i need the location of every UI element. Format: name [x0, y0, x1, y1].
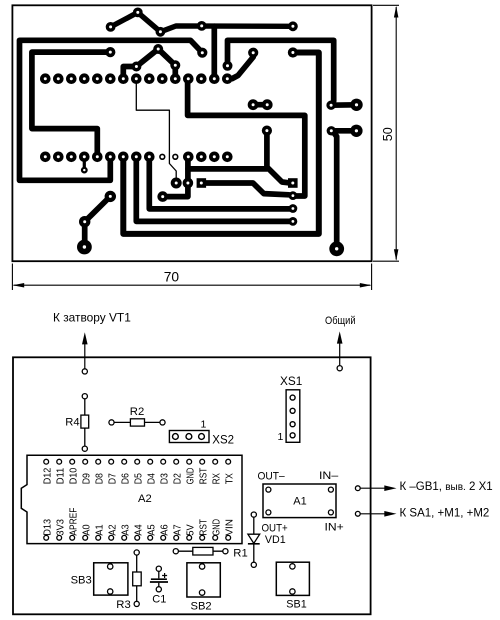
pad out small 2 [327, 126, 336, 135]
pin APREF of A2 [70, 535, 75, 540]
pin D3 of A2 [161, 459, 166, 464]
svg-text:1: 1 [201, 418, 207, 430]
pin A4 of A2 [135, 535, 140, 540]
pad junction [183, 178, 194, 189]
button SB3 [94, 563, 128, 595]
pad zigzag node [106, 22, 116, 32]
svg-text:RST: RST [198, 519, 209, 536]
pad mounting left [77, 240, 92, 255]
svg-text:OUT–: OUT– [258, 471, 286, 483]
svg-text:RST: RST [198, 468, 209, 485]
svg-text:A3: A3 [120, 524, 131, 535]
wire thin signal trace [136, 79, 176, 183]
svg-text:50: 50 [381, 127, 395, 141]
pin D8 of A2 [96, 459, 101, 464]
button SB2 [187, 563, 220, 597]
svg-text:R1: R1 [233, 547, 247, 559]
wire square-pad trace [201, 183, 289, 195]
svg-text:A2: A2 [138, 493, 152, 505]
pad bottom row pin 2 [53, 152, 64, 163]
pad jumper left [248, 99, 259, 110]
pin GND of A2 [213, 535, 218, 540]
svg-text:R4: R4 [65, 417, 79, 429]
polarity plus of C1 [162, 573, 167, 578]
svg-text:К затвору VT1: К затвору VT1 [53, 311, 131, 325]
pin RST of A2 [200, 459, 205, 464]
svg-text:К –GB1, выв. 2 X1: К –GB1, выв. 2 X1 [400, 481, 493, 493]
pad end of inner-C [105, 47, 115, 57]
wire outer-C trace [20, 40, 203, 180]
diode VD1 [248, 512, 260, 567]
pin D10 of A2 [70, 459, 75, 464]
wire pin12-XS1 trace [188, 79, 305, 196]
svg-text:SB1: SB1 [286, 598, 306, 610]
pad thin trace end [171, 178, 182, 189]
pad out small 1 [326, 101, 335, 110]
svg-text:GND: GND [185, 468, 196, 485]
pin D6 of A2 [122, 459, 127, 464]
pin D9 of A2 [83, 459, 88, 464]
svg-text:К SA1, +M1, +M2: К SA1, +M1, +M2 [400, 508, 490, 520]
wire stub [83, 157, 86, 170]
pin A6 of A2 [161, 535, 166, 540]
pad zigzag node [197, 21, 207, 31]
pad inverted-V node [153, 44, 163, 54]
resistor R2 [109, 419, 165, 426]
wire right-top trace [228, 40, 357, 105]
placement board outline [13, 357, 371, 614]
pad bottom row pin 12 [183, 152, 194, 163]
connector XS2 [169, 431, 209, 443]
wire diagonal to square pad [267, 131, 290, 183]
pad XS1 pin1 square [288, 178, 298, 188]
pad end of outer-C [197, 48, 207, 58]
svg-text:A5: A5 [146, 524, 157, 535]
svg-text:D6: D6 [120, 473, 131, 484]
svg-text:D4: D4 [146, 473, 157, 484]
dimension line 50 (right) [373, 5, 399, 261]
pad top row pin 13 [196, 73, 207, 84]
via bottom row pos 10 [160, 154, 165, 159]
pad top row pin 2 [53, 73, 64, 84]
wire to mount pad right [333, 132, 337, 249]
svg-text:IN+: IN+ [325, 522, 344, 534]
pad bottom row pin 9 [144, 152, 155, 163]
pad top row pin 10 [157, 73, 168, 84]
pad top row pin 15 [222, 73, 233, 84]
pad bottom row pin 1 [40, 152, 51, 163]
pad XS1 pin2 [289, 191, 298, 200]
pad mid right [262, 126, 272, 136]
pad bottom row pin 15 [222, 152, 233, 163]
pad bottom row pin 6 [105, 152, 116, 163]
pin 3V3 of A2 [57, 535, 62, 540]
pin A7 of A2 [174, 535, 179, 540]
wire inner-C trace [32, 52, 110, 157]
pad top row pin 7 [118, 73, 129, 84]
svg-text:APREF: APREF [68, 508, 79, 536]
svg-text:D13: D13 [42, 519, 53, 536]
pin A3 of A2 [122, 535, 127, 540]
pad top row pin 6 [105, 73, 116, 84]
pin A1 of A2 [96, 535, 101, 540]
svg-text:XS1: XS1 [280, 374, 302, 388]
pad top row pin 12 [183, 73, 194, 84]
resistor R4 [81, 394, 89, 452]
pad bottom row pin 3 [66, 152, 77, 163]
pin RST of A2 [200, 535, 205, 540]
pad top row pin 14 [209, 73, 220, 84]
pin RX of A2 [213, 459, 218, 464]
wire inverted-V trace [123, 49, 175, 79]
pad inverted-V node [170, 60, 180, 70]
resistor R1 [173, 547, 228, 555]
wire long loop trace [123, 53, 318, 234]
PCB board outline [12, 5, 371, 261]
pad out big 1 [350, 99, 362, 111]
pad diag top [248, 48, 258, 58]
module A1 [263, 484, 336, 518]
pad diag start [105, 191, 116, 202]
node to SA1 [355, 511, 360, 516]
svg-text:A6: A6 [159, 524, 170, 535]
pin D4 of A2 [148, 459, 153, 464]
dimension line 70 (bottom) [12, 264, 371, 291]
wire vertical to pin14 [211, 26, 217, 78]
wire diagonal to pin15 [227, 53, 253, 79]
pin A2 of A2 [109, 535, 114, 540]
pad bottom row pin 4 [79, 152, 90, 163]
svg-text:RX: RX [211, 473, 222, 484]
pin D13 of A2 [44, 535, 49, 540]
wire top zigzag [111, 12, 293, 31]
pad right-top trace end [223, 61, 233, 71]
pin TX of A2 [226, 459, 231, 464]
svg-text:D7: D7 [107, 473, 118, 484]
svg-text:SB3: SB3 [71, 574, 92, 586]
pad XS1 pin4 [289, 217, 298, 226]
svg-text:TX: TX [224, 473, 235, 484]
svg-text:70: 70 [164, 269, 180, 284]
svg-text:VIN: VIN [224, 519, 235, 536]
pad top row pin 5 [92, 73, 103, 84]
pad top row pin 1 [40, 73, 51, 84]
pad left of junction [157, 191, 168, 202]
svg-text:D11: D11 [55, 467, 66, 484]
wire branch horizontal [188, 166, 267, 172]
svg-text:R2: R2 [130, 406, 144, 418]
pad jumper right [262, 99, 273, 110]
svg-text:D8: D8 [94, 473, 105, 484]
svg-text:D3: D3 [159, 473, 170, 484]
pin D7 of A2 [109, 459, 114, 464]
pin GND of A2 [187, 459, 192, 464]
svg-text:D12: D12 [42, 467, 53, 484]
pad top row pin 9 [144, 73, 155, 84]
svg-text:VD1: VD1 [265, 534, 286, 546]
pad bottom row pin 8 [131, 152, 142, 163]
svg-text:5V: 5V [185, 524, 196, 535]
wire arrow to gate VT1 [84, 344, 86, 369]
svg-text:1: 1 [278, 431, 284, 443]
svg-text:D9: D9 [81, 473, 92, 484]
wire jumper trace [253, 102, 267, 108]
svg-text:A2: A2 [107, 524, 118, 535]
pad inverted-V node [131, 62, 141, 72]
svg-text:A0: A0 [81, 524, 92, 535]
wire diagonal to mount pad [85, 196, 111, 247]
node pad Obshchiy [337, 366, 342, 371]
pad top row pin 4 [79, 73, 90, 84]
svg-text:D5: D5 [133, 473, 144, 484]
pin VIN of A2 [226, 535, 231, 540]
capacitor C1 [150, 566, 168, 592]
wire arrow to common [339, 343, 341, 365]
via bottom row pos 11 [173, 154, 178, 159]
button SB1 [276, 562, 309, 595]
pin A0 of A2 [83, 535, 88, 540]
svg-text:A1: A1 [293, 495, 306, 507]
pad XS2 square [197, 178, 207, 188]
svg-text:R3: R3 [116, 599, 130, 611]
pin A5 of A2 [148, 535, 153, 540]
svg-text:A1: A1 [94, 524, 105, 535]
node pad K zatvoru [82, 369, 87, 374]
pin D12 of A2 [44, 459, 49, 464]
svg-text:Общий: Общий [325, 315, 356, 327]
pad diag mid [79, 216, 90, 227]
pad bottom row pin 7 [118, 152, 129, 163]
pad top row pin 8 [131, 73, 142, 84]
pad zigzag node [288, 21, 298, 31]
svg-text:IN–: IN– [319, 470, 339, 482]
wire pad pair trace [331, 128, 356, 134]
node to -GB1 [355, 486, 360, 491]
svg-text:D2: D2 [172, 473, 183, 484]
svg-text:GND: GND [211, 519, 222, 536]
resistor R3 [133, 550, 142, 607]
pin 5V of A2 [187, 535, 192, 540]
pad out big 2 [350, 125, 362, 137]
wire nested-L2 [136, 157, 290, 222]
pad top row pin 11 [170, 73, 181, 84]
svg-text:XS2: XS2 [212, 434, 234, 446]
pad bottom row pin 14 [209, 152, 220, 163]
pad mounting right [329, 241, 344, 256]
svg-text:D10: D10 [68, 467, 79, 484]
pin D11 of A2 [57, 459, 62, 464]
pad bottom row pin 5 [92, 152, 103, 163]
pin D5 of A2 [135, 459, 140, 464]
pad zigzag node [156, 27, 166, 37]
wire pin12-bottom trace [163, 157, 188, 197]
svg-text:A4: A4 [133, 524, 144, 535]
svg-text:C1: C1 [152, 593, 166, 605]
wire nested-L1 [149, 157, 290, 209]
pad long loop top [288, 47, 298, 57]
pad small stub [81, 167, 88, 174]
pad top row pin 3 [66, 73, 77, 84]
svg-text:SB2: SB2 [191, 601, 212, 613]
IC A2 outline with key notch [21, 455, 242, 543]
svg-text:OUT+: OUT+ [262, 523, 288, 535]
pin D2 of A2 [174, 459, 179, 464]
svg-text:A7: A7 [172, 524, 183, 535]
pad bottom row pin 13 [196, 152, 207, 163]
pad zigzag node [133, 7, 143, 17]
pad XS1 pin3 [289, 204, 298, 213]
svg-text:3V3: 3V3 [55, 519, 66, 536]
